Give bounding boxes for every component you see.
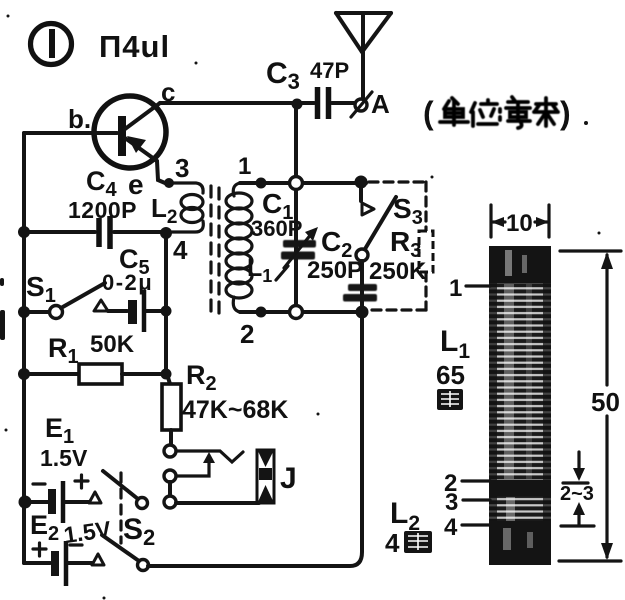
- switch S2 lower pole: [102, 535, 149, 571]
- antenna: [336, 13, 391, 98]
- svg-text:250P: 250P: [307, 257, 363, 284]
- coil L2: [151, 183, 203, 232]
- svg-text:L1: L1: [440, 325, 470, 363]
- svg-text:4: 4: [444, 514, 458, 541]
- coil body L1 winding: [489, 283, 551, 480]
- svg-text:R2: R2: [186, 360, 217, 395]
- svg-text:47P: 47P: [310, 58, 349, 83]
- node tank bottom left: [256, 307, 267, 318]
- ferrite core dashes: [211, 186, 219, 314]
- svg-text:4: 4: [385, 528, 400, 558]
- left rail: [22, 133, 26, 563]
- svg-text:R1: R1: [48, 333, 79, 368]
- coil body L2 winding: [489, 496, 551, 521]
- dimension 50: [559, 251, 621, 561]
- resistor R3: [369, 226, 433, 285]
- tank top wire: [240, 181, 366, 185]
- switch S2 upper pole: [103, 471, 148, 509]
- transistor Q1: [24, 77, 175, 200]
- svg-text:c: c: [161, 77, 175, 107]
- svg-text:4: 4: [173, 235, 188, 265]
- node tank bottom right: [356, 306, 369, 319]
- node tank top left: [256, 178, 267, 189]
- svg-text:П4ul: П4ul: [99, 29, 170, 64]
- svg-text:47K~68K: 47K~68K: [182, 396, 288, 424]
- node left rail C4 row: [18, 226, 30, 238]
- E2 fixed contact triangle: [92, 554, 104, 565]
- coil form dimension 10: [491, 205, 549, 237]
- capacitor C4: [24, 166, 166, 249]
- node tank top right: [355, 176, 368, 189]
- svg-text:C3: C3: [266, 57, 300, 94]
- label L1 65 turns: [436, 325, 470, 410]
- dimension 2~3: [560, 452, 594, 526]
- resistor R1: [24, 331, 166, 384]
- tap 1 lead: [449, 275, 490, 302]
- node 4 column wire: [164, 233, 168, 374]
- svg-text:b.: b.: [68, 104, 91, 134]
- tap 2 lead: [444, 470, 490, 497]
- node 4: [160, 227, 172, 239]
- tap 4 lead: [444, 514, 490, 541]
- svg-text:1: 1: [238, 153, 251, 180]
- svg-text:L2: L2: [151, 193, 177, 228]
- wire C3 node down to tank: [294, 103, 298, 183]
- wire B to C: [168, 482, 172, 496]
- svg-text:R3: R3: [390, 226, 421, 262]
- switch S1: [24, 271, 108, 319]
- svg-text:3: 3: [445, 489, 458, 516]
- svg-text:J: J: [280, 462, 297, 495]
- node left rail E1 row: [19, 496, 32, 509]
- wire C to jack: [176, 501, 259, 505]
- node at C3 junction: [292, 99, 303, 110]
- svg-text:360P: 360P: [251, 216, 302, 241]
- figure number circled 1: [31, 24, 72, 65]
- coil body bottom cap: [489, 521, 551, 565]
- node left rail R1 row: [18, 368, 30, 380]
- wire collector to C3 node: [160, 101, 297, 105]
- svg-text:A: A: [371, 89, 390, 119]
- svg-text:1.5V: 1.5V: [40, 445, 88, 471]
- switch S3: [356, 183, 423, 261]
- tank bottom wire: [240, 310, 366, 314]
- svg-text:(: (: [423, 95, 434, 131]
- svg-text:50K: 50K: [90, 331, 135, 358]
- contact A below R2: [164, 445, 243, 462]
- svg-text:1200P: 1200P: [68, 197, 137, 223]
- svg-text:65: 65: [436, 360, 465, 390]
- svg-text:250K: 250K: [369, 258, 427, 285]
- tap 3 lead: [445, 489, 490, 516]
- svg-text:e: e: [128, 169, 144, 200]
- svg-text:2: 2: [240, 319, 254, 349]
- capacitor C2: [307, 226, 377, 307]
- contact C: [164, 496, 176, 508]
- capacitor C5: [102, 244, 166, 332]
- svg-text:0-2μ: 0-2μ: [102, 270, 153, 295]
- svg-text:1: 1: [449, 275, 462, 302]
- coil tap2 band: [489, 480, 551, 496]
- terminal A: [351, 89, 390, 119]
- contact B adjustable tap arrow: [164, 452, 215, 482]
- dashed box: [369, 182, 426, 310]
- svg-text:S2: S2: [123, 513, 155, 550]
- svg-text:50: 50: [591, 387, 620, 417]
- coil body top cap: [489, 246, 551, 283]
- svg-text:): ): [560, 95, 571, 131]
- resistor R2: [162, 360, 288, 445]
- svg-text:S1: S1: [26, 271, 56, 307]
- node left rail S1 row: [18, 306, 30, 318]
- coil L1 schematic: [226, 183, 272, 312]
- bottom rail wire: [148, 318, 362, 566]
- node mid C5 row: [161, 306, 172, 317]
- E1 fixed contact triangle: [89, 492, 101, 503]
- capacitor C3: [266, 57, 354, 119]
- unit note (danwei: haomi): [423, 95, 571, 131]
- earphone jack J: [257, 450, 297, 503]
- node mid R1 row: [161, 369, 172, 380]
- svg-text:E1: E1: [45, 413, 74, 448]
- svg-text:2~3: 2~3: [560, 483, 594, 505]
- S2 mechanical link: [119, 473, 122, 543]
- battery E2: [24, 510, 113, 586]
- variable capacitor C1: [251, 177, 318, 319]
- svg-text:L1: L1: [247, 254, 272, 286]
- node 3: [164, 178, 174, 188]
- battery E1: [25, 413, 89, 523]
- svg-text:3: 3: [175, 153, 189, 183]
- svg-text:S3: S3: [393, 193, 423, 229]
- svg-text:1.5V: 1.5V: [62, 516, 113, 548]
- svg-text:10: 10: [506, 210, 533, 237]
- svg-text:C4: C4: [86, 166, 118, 201]
- svg-text:E2: E2: [30, 510, 59, 545]
- label L2 4 turns: [385, 497, 432, 558]
